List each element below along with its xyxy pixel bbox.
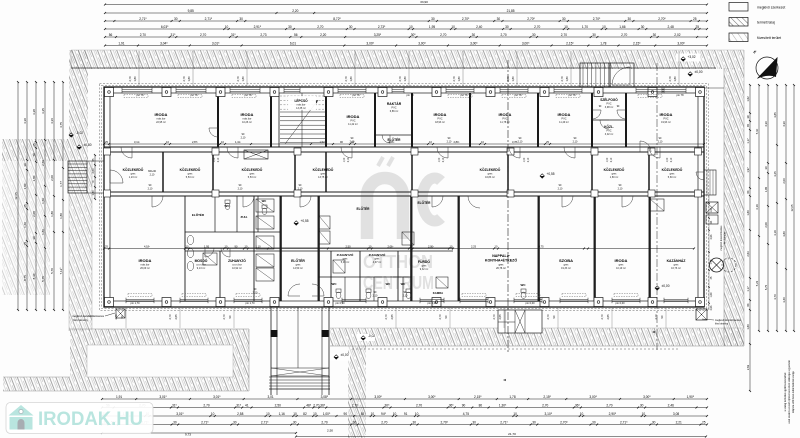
- svg-text:2,21: 2,21: [676, 421, 682, 425]
- svg-text:±0,00: ±0,00: [662, 284, 670, 288]
- svg-text:2,10: 2,10: [447, 140, 452, 143]
- svg-text:14,50 m²: 14,50 m²: [293, 267, 303, 270]
- svg-text:2,15⁵: 2,15⁵: [543, 395, 551, 399]
- svg-text:3,19: 3,19: [755, 204, 759, 210]
- svg-text:2,15⁵: 2,15⁵: [474, 395, 482, 399]
- svg-text:22,95 m²: 22,95 m²: [156, 121, 166, 124]
- svg-text:1,97: 1,97: [746, 167, 750, 173]
- svg-text:1,80: 1,80: [511, 76, 515, 82]
- svg-text:3,98 m²: 3,98 m²: [605, 106, 614, 109]
- svg-text:WC: WC: [386, 282, 391, 286]
- svg-text:2,70: 2,70: [606, 404, 612, 408]
- svg-text:45: 45: [746, 124, 750, 127]
- svg-text:1,41⁵: 1,41⁵: [235, 140, 241, 144]
- svg-text:11,49 m²: 11,49 m²: [559, 121, 569, 124]
- svg-text:26,09 m²: 26,09 m²: [140, 267, 150, 270]
- svg-text:pm 0,90: pm 0,90: [335, 302, 345, 305]
- svg-text:1,78: 1,78: [600, 42, 606, 46]
- chimney bottom-right box: [696, 309, 707, 320]
- svg-text:82: 82: [303, 412, 307, 416]
- corridor west door: [110, 170, 123, 183]
- legend: [729, 3, 748, 12]
- windows top wall: [122, 89, 152, 91]
- svg-text:2,65: 2,65: [174, 314, 178, 320]
- svg-text:10: 10: [225, 25, 229, 29]
- svg-text:8,75: 8,75: [23, 275, 27, 281]
- svg-text:2,70: 2,70: [140, 33, 146, 37]
- svg-text:pm 78: pm 78: [677, 94, 685, 97]
- svg-text:5,60 m²: 5,60 m²: [668, 176, 677, 179]
- left vertical dimension chains: [17, 82, 19, 310]
- svg-text:LÉPCSŐ: LÉPCSŐ: [294, 98, 308, 103]
- svg-text:1,80: 1,80: [23, 183, 27, 189]
- svg-text:±0,80: ±0,80: [84, 143, 92, 147]
- svg-text:1,80: 1,80: [403, 76, 407, 82]
- windows bottom wall: [126, 299, 154, 301]
- svg-text:30: 30: [640, 404, 644, 408]
- svg-text:4,06⁵: 4,06⁵: [388, 140, 394, 144]
- svg-text:30: 30: [592, 33, 596, 37]
- svg-text:1,80: 1,80: [59, 213, 63, 219]
- svg-text:1,00: 1,00: [439, 157, 441, 162]
- svg-text:KÖZLEKEDŐ: KÖZLEKEDŐ: [123, 167, 144, 172]
- svg-text:11,78 m²: 11,78 m²: [500, 121, 510, 124]
- svg-text:MOSDÓ: MOSDÓ: [195, 258, 208, 263]
- wall corridor bottom y192: [104, 191, 704, 193]
- svg-text:2,80⁵: 2,80⁵: [453, 140, 459, 144]
- svg-text:36⁵: 36⁵: [575, 404, 581, 408]
- svg-text:30⁵: 30⁵: [411, 33, 417, 37]
- svg-text:1,80: 1,80: [187, 76, 191, 82]
- svg-text:KÖZLEKEDŐ: KÖZLEKEDŐ: [180, 167, 201, 172]
- svg-text:39: 39: [746, 115, 750, 118]
- svg-text:10,26 m²: 10,26 m²: [242, 121, 252, 124]
- svg-text:1,10: 1,10: [255, 245, 261, 249]
- svg-text:2,70: 2,70: [542, 404, 548, 408]
- svg-text:2,63: 2,63: [710, 305, 713, 310]
- svg-text:pm 0,00: pm 0,00: [615, 302, 625, 305]
- svg-text:3,00⁵: 3,00⁵: [677, 42, 685, 46]
- svg-text:10: 10: [293, 412, 297, 416]
- svg-text:25: 25: [695, 25, 699, 29]
- svg-text:10: 10: [211, 412, 215, 416]
- svg-text:2,70: 2,70: [654, 314, 658, 320]
- svg-text:2,58: 2,58: [237, 412, 243, 416]
- svg-text:1,00⁵: 1,00⁵: [323, 412, 331, 416]
- section line A-A: [507, 60, 509, 352]
- svg-text:meglévő kandallókémenes: meglévő kandallókémenes: [72, 314, 104, 318]
- chimney right (double circle): [710, 258, 724, 272]
- svg-text:1,80: 1,80: [746, 324, 750, 330]
- svg-text:2,08: 2,08: [764, 222, 768, 228]
- svg-text:+0,55: +0,55: [300, 219, 308, 223]
- svg-text:2,71⁵: 2,71⁵: [201, 421, 209, 425]
- svg-text:30: 30: [353, 421, 357, 425]
- svg-text:5,75: 5,75: [41, 276, 45, 282]
- svg-text:füvesített terület: füvesített terület: [757, 36, 781, 40]
- svg-text:10: 10: [451, 25, 455, 29]
- wall pillars: [105, 88, 114, 97]
- svg-text:25: 25: [32, 143, 36, 147]
- wall wc-row y277: [318, 276, 412, 278]
- svg-text:70: 70: [32, 153, 36, 157]
- svg-text:1,80: 1,80: [241, 76, 245, 82]
- svg-text:30: 30: [472, 421, 476, 425]
- svg-text:10: 10: [642, 412, 646, 416]
- svg-text:30: 30: [653, 33, 657, 37]
- svg-text:30: 30: [239, 17, 243, 21]
- svg-text:2,10: 2,10: [558, 187, 563, 190]
- logo plate irodak.hu: [6, 403, 153, 434]
- svg-text:3,02 m²: 3,02 m²: [605, 133, 614, 136]
- svg-text:2,87⁵: 2,87⁵: [192, 140, 198, 144]
- eaves dashed outline: [100, 84, 709, 311]
- svg-text:1,00: 1,00: [607, 157, 609, 162]
- svg-text:64: 64: [746, 303, 750, 306]
- svg-text:2,20: 2,20: [320, 33, 326, 37]
- svg-text:ELŐTÉR: ELŐTÉR: [418, 200, 432, 205]
- svg-text:2,70: 2,70: [534, 25, 540, 29]
- svg-text:ZUHANYZÓ: ZUHANYZÓ: [228, 258, 246, 263]
- top band partition walls: [217, 93, 219, 147]
- svg-text:30: 30: [32, 236, 36, 240]
- svg-text:CENTRUM: CENTRUM: [363, 273, 434, 293]
- svg-text:2,06⁵: 2,06⁵: [387, 245, 393, 249]
- svg-text:3,70: 3,70: [773, 294, 777, 300]
- svg-text:30: 30: [627, 17, 631, 21]
- svg-text:16,83 m²: 16,83 m²: [485, 176, 495, 179]
- svg-text:3,00⁵: 3,00⁵: [470, 42, 478, 46]
- svg-text:3,01⁵: 3,01⁵: [213, 395, 221, 399]
- svg-text:2,10: 2,10: [373, 294, 378, 297]
- svg-text:30: 30: [173, 421, 177, 425]
- svg-text:2,10: 2,10: [218, 157, 220, 162]
- svg-text:ZUHANYZÓ: ZUHANYZÓ: [337, 252, 354, 257]
- svg-text:30: 30: [431, 17, 435, 21]
- svg-text:2,25: 2,25: [471, 245, 477, 249]
- svg-text:2,70: 2,70: [114, 314, 118, 320]
- svg-text:16,76 m²: 16,76 m²: [671, 267, 681, 270]
- svg-text:30: 30: [413, 421, 417, 425]
- svg-text:termett talaj: termett talaj: [757, 21, 775, 25]
- svg-text:2,10: 2,10: [348, 157, 350, 162]
- svg-text:1,80: 1,80: [565, 76, 569, 82]
- svg-text:2,70: 2,70: [381, 421, 387, 425]
- svg-text:1,78: 1,78: [509, 395, 515, 399]
- svg-text:ZUH.: ZUH.: [241, 215, 248, 219]
- svg-text:1,80: 1,80: [41, 229, 45, 235]
- svg-text:20,76 m²: 20,76 m²: [496, 267, 506, 270]
- svg-text:5,75: 5,75: [764, 284, 768, 290]
- svg-text:fém kémény: fém kémény: [725, 231, 727, 244]
- svg-text:FÜRDŐ: FÜRDŐ: [418, 259, 430, 264]
- svg-text:pm 0,00: pm 0,00: [525, 302, 535, 305]
- svg-text:33,90: 33,90: [420, 0, 428, 4]
- svg-text:+3,02: +3,02: [687, 55, 695, 59]
- svg-text:IRODA: IRODA: [434, 112, 447, 117]
- svg-text:25: 25: [23, 204, 27, 208]
- svg-text:2,50: 2,50: [345, 245, 351, 249]
- svg-text:2,73⁵: 2,73⁵: [378, 25, 386, 29]
- svg-text:30: 30: [174, 17, 178, 21]
- svg-text:IRODA: IRODA: [558, 112, 571, 117]
- svg-text:állapota előtt belen tehát bur: állapota előtt belen tehát burkolat szer…: [792, 370, 795, 413]
- svg-text:10: 10: [313, 412, 317, 416]
- wc fixtures: [225, 200, 230, 204]
- svg-text:2,70: 2,70: [438, 314, 442, 320]
- svg-text:ELŐTÉR: ELŐTÉR: [291, 258, 305, 263]
- svg-text:4,30: 4,30: [764, 121, 768, 127]
- svg-text:1,80: 1,80: [746, 210, 750, 216]
- svg-text:1,95: 1,95: [429, 25, 435, 29]
- svg-text:1,80: 1,80: [349, 76, 353, 82]
- svg-text:2,10: 2,10: [611, 157, 613, 162]
- svg-text:2,79: 2,79: [236, 76, 240, 82]
- svg-text:30: 30: [349, 25, 353, 29]
- svg-text:2,70: 2,70: [352, 404, 358, 408]
- svg-text:RAKTÁR: RAKTÁR: [387, 101, 402, 106]
- svg-text:1,00: 1,00: [667, 157, 669, 162]
- svg-text:30: 30: [505, 25, 509, 29]
- svg-text:10: 10: [564, 25, 568, 29]
- svg-text:3,00⁵: 3,00⁵: [366, 42, 374, 46]
- svg-text:3,00⁵: 3,00⁵: [374, 395, 382, 399]
- svg-text:2,65: 2,65: [498, 314, 502, 320]
- svg-text:2,70⁵: 2,70⁵: [593, 17, 601, 21]
- svg-text:80: 80: [479, 404, 483, 408]
- svg-text:10,19 m²: 10,19 m²: [616, 267, 626, 270]
- door arcs: [121, 147, 132, 158]
- svg-text:2,70⁵: 2,70⁵: [462, 17, 470, 21]
- svg-text:WC: WC: [332, 282, 338, 286]
- svg-text:30: 30: [288, 25, 292, 29]
- svg-text:2,20: 2,20: [292, 9, 298, 13]
- svg-text:4,75: 4,75: [538, 245, 544, 249]
- svg-text:13,35 m²: 13,35 m²: [296, 107, 306, 110]
- svg-text:2,60: 2,60: [91, 168, 95, 174]
- svg-text:IRODAK.HU: IRODAK.HU: [38, 409, 143, 430]
- svg-text:2,70: 2,70: [168, 314, 172, 320]
- svg-text:1,80: 1,80: [50, 211, 54, 217]
- svg-text:ezek szerint a vezető építész: ezek szerint a vezető építész tervezővel…: [788, 360, 791, 424]
- svg-text:3,00⁵: 3,00⁵: [589, 395, 597, 399]
- svg-text:56: 56: [294, 33, 298, 37]
- svg-text:13,75 m²: 13,75 m²: [318, 176, 328, 179]
- svg-text:pm 1,70: pm 1,70: [245, 302, 255, 305]
- svg-text:4,30: 4,30: [23, 118, 27, 124]
- svg-text:7,12⁵: 7,12⁵: [59, 267, 63, 275]
- svg-text:2,60: 2,60: [41, 160, 45, 166]
- svg-text:1,91: 1,91: [116, 395, 122, 399]
- svg-text:2,79: 2,79: [668, 76, 672, 82]
- watermark Otthon Centrum logo: [367, 157, 441, 239]
- svg-text:1,62: 1,62: [746, 96, 750, 102]
- svg-text:5,53 m²: 5,53 m²: [186, 176, 195, 179]
- svg-text:30⁵: 30⁵: [385, 404, 391, 408]
- svg-text:30: 30: [293, 421, 297, 425]
- svg-text:6,03⁵: 6,03⁵: [161, 25, 169, 29]
- svg-text:KÖZLEKEDŐ: KÖZLEKEDŐ: [480, 167, 501, 172]
- svg-text:3,08: 3,08: [673, 412, 679, 416]
- svg-text:fém kémény: fém kémény: [73, 318, 88, 322]
- svg-text:ELŐTÉR: ELŐTÉR: [357, 206, 371, 211]
- corridor partition walls: [162, 152, 164, 192]
- svg-text:5,23: 5,23: [755, 280, 759, 286]
- svg-text:2,90⁵: 2,90⁵: [609, 412, 617, 416]
- svg-text:2,10: 2,10: [518, 140, 523, 143]
- svg-text:2,65: 2,65: [390, 314, 394, 320]
- svg-text:3,00⁵: 3,00⁵: [418, 42, 426, 46]
- svg-text:1,66: 1,66: [619, 25, 625, 29]
- svg-text:KÖZLEKEDŐ: KÖZLEKEDŐ: [604, 167, 625, 172]
- svg-text:1,80: 1,80: [710, 292, 713, 297]
- svg-text:1,91: 1,91: [118, 42, 124, 46]
- svg-text:SZÉLFOGÓ: SZÉLFOGÓ: [600, 97, 618, 102]
- corridor shaft box: [244, 150, 268, 159]
- svg-text:12,65: 12,65: [14, 192, 18, 200]
- svg-text:5,53 m²: 5,53 m²: [248, 176, 257, 179]
- svg-text:36⁵: 36⁵: [449, 404, 455, 408]
- chimney bottom-left box: [116, 309, 125, 318]
- svg-text:25: 25: [23, 242, 27, 246]
- svg-text:4,36: 4,36: [50, 118, 54, 124]
- svg-text:2,91⁵: 2,91⁵: [254, 25, 262, 29]
- svg-text:25: 25: [693, 17, 697, 21]
- svg-text:2,79: 2,79: [182, 76, 186, 82]
- svg-text:NAPPALI+: NAPPALI+: [492, 254, 510, 258]
- svg-text:SZOBA: SZOBA: [559, 258, 573, 263]
- svg-text:fém kémény: fém kémény: [715, 323, 729, 326]
- svg-text:2,79: 2,79: [506, 76, 510, 82]
- svg-text:meglévő konzolómentes: meglévő konzolómentes: [720, 225, 723, 251]
- svg-text:2,70: 2,70: [317, 25, 323, 29]
- svg-text:2,71⁵: 2,71⁵: [205, 17, 213, 21]
- svg-text:2,10: 2,10: [403, 294, 408, 297]
- svg-text:9,85: 9,85: [188, 9, 194, 13]
- svg-text:2,70: 2,70: [200, 33, 206, 37]
- svg-text:4,30: 4,30: [782, 121, 786, 127]
- svg-text:5,70: 5,70: [50, 268, 54, 274]
- svg-text:30: 30: [592, 421, 596, 425]
- svg-text:10: 10: [415, 412, 419, 416]
- shafts / shower boxes with X: [256, 199, 274, 212]
- svg-text:IRODA: IRODA: [241, 112, 254, 117]
- svg-text:4,75: 4,75: [463, 412, 469, 416]
- svg-text:WC: WC: [262, 199, 267, 203]
- radiators: [124, 95, 148, 98]
- svg-text:2,10: 2,10: [238, 187, 243, 190]
- svg-text:90: 90: [462, 404, 466, 408]
- svg-text:30: 30: [497, 17, 501, 21]
- svg-text:KAMRA: KAMRA: [433, 291, 443, 295]
- svg-text:IRODA: IRODA: [660, 112, 673, 117]
- svg-text:1,16: 1,16: [279, 412, 285, 416]
- svg-text:3,80: 3,80: [782, 231, 786, 237]
- svg-text:2,63: 2,63: [746, 364, 750, 370]
- svg-text:WC: WC: [401, 282, 406, 286]
- svg-text:10: 10: [266, 412, 270, 416]
- wall top-band bottom y147: [104, 146, 704, 148]
- svg-text:21,85: 21,85: [507, 9, 515, 13]
- svg-text:IRODA: IRODA: [499, 112, 512, 117]
- svg-text:2,70: 2,70: [222, 314, 226, 320]
- svg-text:1,80: 1,80: [673, 76, 677, 82]
- svg-text:2,10: 2,10: [443, 157, 445, 162]
- svg-text:1,95: 1,95: [204, 245, 210, 249]
- svg-text:85: 85: [361, 412, 365, 416]
- svg-text:2,70: 2,70: [600, 314, 604, 320]
- svg-text:WC: WC: [521, 283, 527, 287]
- svg-text:30: 30: [472, 33, 476, 37]
- svg-text:2,79: 2,79: [560, 76, 564, 82]
- svg-text:9,73: 9,73: [185, 433, 191, 437]
- svg-text:1,80: 1,80: [91, 190, 95, 196]
- svg-text:2,79: 2,79: [128, 76, 132, 82]
- svg-text:2,63: 2,63: [710, 234, 713, 239]
- bottom entrance stair ELOTER exterior: [270, 307, 272, 395]
- svg-text:9,32 m²: 9,32 m²: [420, 268, 429, 271]
- svg-text:1,80 m²: 1,80 m²: [610, 176, 619, 179]
- svg-text:2,70⁵: 2,70⁵: [440, 421, 448, 425]
- svg-text:2,10: 2,10: [150, 173, 155, 176]
- svg-text:meglévő szerkezet: meglévő szerkezet: [757, 6, 785, 10]
- svg-text:4,97 m²: 4,97 m²: [373, 261, 382, 264]
- svg-text:1,70: 1,70: [582, 25, 588, 29]
- svg-text:2,79: 2,79: [452, 76, 456, 82]
- svg-text:6,86 m²: 6,86 m²: [390, 110, 399, 113]
- svg-text:KÖZLEKEDŐ: KÖZLEKEDŐ: [662, 167, 683, 172]
- svg-text:2,71⁵: 2,71⁵: [139, 17, 147, 21]
- svg-text:2,15⁵: 2,15⁵: [633, 42, 641, 46]
- svg-text:10: 10: [602, 25, 606, 29]
- svg-text:19,33 m²: 19,33 m²: [561, 267, 571, 270]
- svg-text:3,10⁵: 3,10⁵: [545, 412, 553, 416]
- svg-text:2,70: 2,70: [621, 33, 627, 37]
- svg-text:25: 25: [702, 421, 706, 425]
- svg-text:10,92 m²: 10,92 m²: [232, 267, 242, 270]
- svg-text:2,70: 2,70: [492, 314, 496, 320]
- svg-text:-0,02: -0,02: [368, 334, 375, 338]
- svg-text:3,01⁵: 3,01⁵: [176, 412, 184, 416]
- svg-text:19,93 m²: 19,93 m²: [661, 121, 671, 124]
- svg-text:IRODA: IRODA: [615, 258, 628, 263]
- svg-text:10: 10: [409, 25, 413, 29]
- svg-text:12,65: 12,65: [790, 204, 794, 211]
- svg-text:2,10: 2,10: [573, 140, 578, 143]
- svg-text:30: 30: [641, 25, 645, 29]
- svg-text:2,65: 2,65: [606, 314, 610, 320]
- svg-text:2,70: 2,70: [546, 314, 550, 320]
- svg-text:2,70: 2,70: [321, 421, 327, 425]
- svg-text:ELŐTÉR: ELŐTÉR: [192, 212, 205, 217]
- svg-text:1,17: 1,17: [746, 286, 750, 292]
- svg-text:41: 41: [245, 404, 249, 408]
- svg-text:1,80: 1,80: [133, 76, 137, 82]
- svg-text:2,70: 2,70: [416, 404, 422, 408]
- svg-text:KÖZLEKEDŐ: KÖZLEKEDŐ: [313, 167, 334, 172]
- svg-text:2,71⁵: 2,71⁵: [620, 421, 628, 425]
- svg-text:3,19: 3,19: [773, 230, 777, 236]
- svg-text:8,72⁵: 8,72⁵: [333, 17, 341, 21]
- svg-text:31⁵: 31⁵: [171, 33, 177, 37]
- top dimension chains: [105, 4, 707, 6]
- svg-text:2,00⁵: 2,00⁵: [428, 245, 434, 249]
- svg-text:21,70: 21,70: [508, 432, 516, 436]
- svg-text:±0,00: ±0,00: [341, 353, 349, 357]
- svg-text:1,17: 1,17: [746, 138, 750, 144]
- svg-text:4,18⁵: 4,18⁵: [144, 245, 150, 249]
- svg-text:3,25: 3,25: [41, 108, 45, 114]
